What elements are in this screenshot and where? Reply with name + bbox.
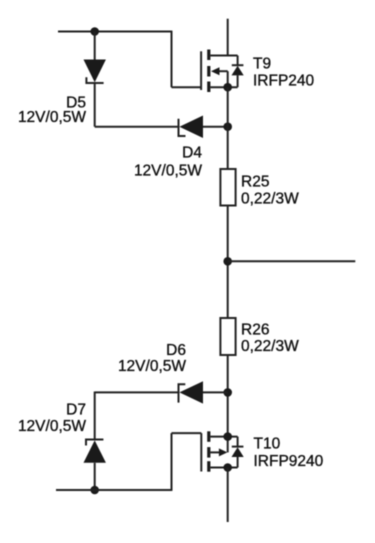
wire trunk R26 to T10	[227, 355, 229, 437]
wire D5 anode lead down	[94, 83, 96, 127]
wire top corner vertical	[171, 31, 173, 88]
node T10 source junction dot	[223, 432, 232, 441]
T9 channel bar body	[207, 66, 210, 77]
svg-text:T10: T10	[254, 435, 281, 452]
svg-text:D6: D6	[166, 342, 186, 359]
node junction dot D4/trunk	[223, 122, 232, 131]
svg-text:0,22/3W: 0,22/3W	[241, 338, 299, 355]
svg-text:IRFP240: IRFP240	[253, 73, 315, 90]
diode D4 zener	[179, 116, 204, 139]
svg-text:12V/0,5W: 12V/0,5W	[18, 109, 86, 126]
wire D4 anode to trunk	[203, 126, 228, 128]
T10 channel bar drain	[207, 461, 210, 472]
T9 channel bar source	[207, 82, 210, 93]
svg-text:T9: T9	[253, 56, 271, 73]
svg-text:0,22/3W: 0,22/3W	[241, 190, 299, 207]
svg-text:12V/0,5W: 12V/0,5W	[134, 163, 202, 180]
wire D7 anode lead down	[94, 463, 96, 490]
node junction dot D7 bottom	[90, 486, 99, 495]
T9 gate line	[200, 51, 202, 90]
node T10 drain junction dot	[223, 463, 232, 472]
wire trunk T9 source to R25	[227, 87, 229, 169]
svg-text:IRFP9240: IRFP9240	[254, 453, 324, 470]
T10 source lead	[210, 436, 237, 438]
wire T10 gate horizontal	[172, 432, 202, 434]
node mid junction dot	[223, 257, 232, 266]
diode D5 zener	[84, 60, 106, 84]
node T9 source junction dot	[223, 83, 232, 92]
wire D4 cathode horizontal	[95, 126, 178, 128]
transistor T9	[201, 50, 244, 93]
wire D6 cathode horizontal	[95, 391, 178, 393]
node junction dot D5 top	[90, 27, 99, 36]
wire mid output horizontal	[228, 260, 356, 262]
resistor R25	[220, 169, 235, 206]
T9 body arrow	[211, 67, 228, 75]
T9 channel bar drain	[207, 50, 210, 61]
T9 source lead	[210, 86, 237, 88]
wire D5 cathode lead	[94, 32, 96, 61]
svg-text:R26: R26	[241, 321, 269, 338]
T10 gate line	[200, 433, 202, 471]
diode D6 zener	[179, 381, 204, 403]
wire D7 cathode lead vertical	[94, 392, 96, 440]
wire bottom horizontal	[56, 489, 172, 491]
T10 channel bar source	[207, 431, 210, 442]
diode D7 zener	[84, 440, 106, 463]
T9 body-source vertical	[227, 71, 229, 87]
svg-text:D7: D7	[66, 401, 86, 418]
T10 channel bar body	[207, 447, 210, 458]
T9 body diode	[232, 56, 244, 88]
transistor T10	[201, 431, 243, 472]
T10 body diode	[232, 437, 244, 468]
T10 body-source vertical	[227, 437, 229, 453]
wire trunk bottom	[227, 468, 229, 523]
wire bottom corner vertical	[171, 433, 173, 491]
T10 body arrow	[210, 448, 227, 456]
wire T9 gate horizontal	[172, 86, 202, 88]
svg-text:12V/0,5W: 12V/0,5W	[18, 418, 86, 435]
node junction dot D6/trunk	[223, 388, 232, 397]
wire D6 anode to trunk	[203, 391, 228, 393]
svg-text:D4: D4	[182, 145, 202, 162]
svg-text:12V/0,5W: 12V/0,5W	[118, 358, 186, 375]
T10 drain lead	[210, 467, 237, 469]
resistor R26	[220, 318, 235, 355]
wire trunk top	[227, 19, 229, 56]
svg-text:R25: R25	[241, 174, 269, 191]
wire trunk R25 to R26	[227, 206, 229, 319]
wire top horizontal	[58, 31, 172, 33]
T9 drain lead	[210, 55, 237, 57]
